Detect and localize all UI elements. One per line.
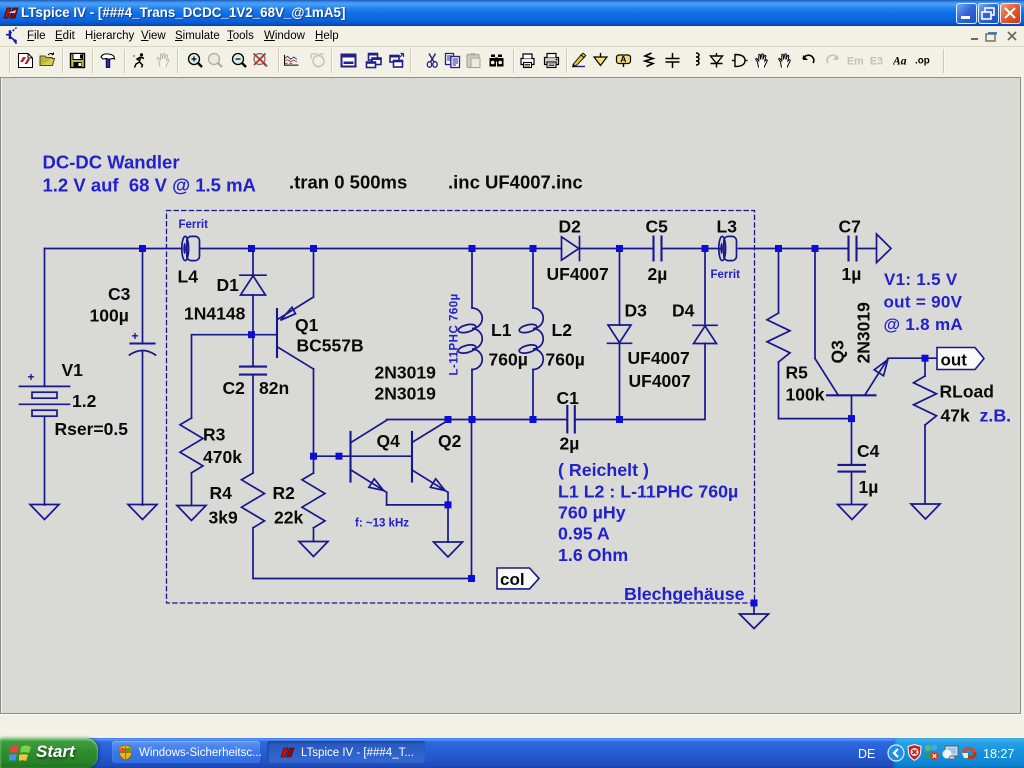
ground Blechgehäuse bbox=[740, 614, 769, 629]
svg-text:+: + bbox=[28, 370, 35, 384]
svg-text:out = 90V: out = 90V bbox=[884, 293, 963, 312]
wire V1 branch bbox=[44, 249, 46, 506]
junction (142,248) bbox=[139, 245, 146, 252]
svg-text:Q2: Q2 bbox=[438, 431, 462, 451]
svg-text:L3: L3 bbox=[717, 217, 738, 237]
wire C2 to R4 bbox=[252, 375, 254, 473]
wire C3 branch bbox=[142, 249, 144, 506]
wire C2 top bbox=[252, 335, 254, 366]
svg-text:1µ: 1µ bbox=[859, 477, 879, 497]
junction (851.5,418.6) bbox=[848, 415, 855, 422]
comment DC-DC Wandler headline bbox=[43, 152, 256, 196]
svg-text:UF4007: UF4007 bbox=[628, 348, 690, 368]
svg-text:Q1: Q1 bbox=[295, 315, 319, 335]
transistor Q1 PNP bbox=[277, 249, 314, 370]
svg-text:D3: D3 bbox=[625, 301, 648, 321]
junction (313,248) bbox=[310, 245, 317, 252]
svg-text:D1: D1 bbox=[217, 275, 240, 295]
resistor R2 bbox=[302, 473, 325, 528]
svg-text:Ferrit: Ferrit bbox=[179, 219, 209, 231]
svg-text:f: ~13 kHz: f: ~13 kHz bbox=[355, 518, 409, 530]
junction (925,358.2) bbox=[922, 355, 929, 362]
wire base row Q4 Q2 bbox=[314, 455, 412, 457]
svg-text:col: col bbox=[500, 570, 525, 589]
svg-text:2µ: 2µ bbox=[648, 264, 668, 284]
svg-text:L4: L4 bbox=[178, 267, 199, 287]
svg-text:1.2 V auf 68 V @ 1.5 mA: 1.2 V auf 68 V @ 1.5 mA bbox=[43, 175, 256, 196]
svg-text:100µ: 100µ bbox=[90, 306, 129, 326]
capacitor C5 bbox=[654, 237, 662, 261]
inductor L1 bbox=[457, 249, 482, 420]
wire col drop bbox=[471, 420, 473, 579]
svg-text:V1: V1 bbox=[62, 360, 84, 380]
ground C4 bbox=[838, 505, 867, 520]
junction (448,419.5) bbox=[445, 416, 452, 423]
svg-text:Ferrit: Ferrit bbox=[711, 269, 741, 281]
resistor R5 bbox=[767, 313, 790, 362]
junction (778,248) bbox=[775, 245, 782, 252]
svg-text:L1: L1 bbox=[491, 320, 512, 340]
svg-text:1.2: 1.2 bbox=[72, 391, 97, 411]
wire Q1 base bbox=[253, 334, 277, 336]
wire Q1 collector down bbox=[313, 369, 315, 456]
svg-text:2µ: 2µ bbox=[560, 434, 580, 454]
wire R3 bottom bbox=[191, 473, 193, 506]
capacitor C7 bbox=[849, 237, 857, 261]
svg-text:UF4007: UF4007 bbox=[547, 264, 609, 284]
svg-text:C7: C7 bbox=[839, 217, 861, 237]
junction (339,456) bbox=[336, 453, 343, 460]
svg-text:Q3: Q3 bbox=[828, 340, 848, 364]
output arrow marker bbox=[877, 234, 892, 263]
junction (471.5,578.5) bbox=[468, 575, 475, 582]
wire R2 top/bottom bbox=[313, 456, 315, 541]
svg-text:L-11PHC 760µ: L-11PHC 760µ bbox=[449, 293, 461, 375]
diode D1 bbox=[240, 275, 266, 295]
svg-text:BC557B: BC557B bbox=[297, 336, 364, 356]
diode D3 bbox=[608, 325, 632, 343]
wire top rail left bbox=[45, 248, 183, 250]
svg-text:2N3019: 2N3019 bbox=[375, 363, 437, 383]
svg-text:Blechgehäuse: Blechgehäuse bbox=[624, 584, 745, 604]
svg-text:A: A bbox=[620, 54, 626, 64]
Blechgehaeuse dashed shield box bbox=[167, 211, 755, 604]
junction (533,248) bbox=[530, 245, 537, 252]
svg-text:82n: 82n bbox=[259, 378, 289, 398]
svg-text:100k: 100k bbox=[786, 385, 825, 405]
svg-text:Q4: Q4 bbox=[377, 431, 401, 451]
wire R5 branch bbox=[779, 249, 852, 419]
junction (251.5,334.7) bbox=[248, 331, 255, 338]
wire C1 right to D4 bbox=[575, 344, 705, 420]
comment V1: 1.5 V bbox=[884, 270, 963, 334]
ground V1 bbox=[30, 505, 59, 520]
svg-text:D2: D2 bbox=[559, 217, 582, 237]
taskbar bbox=[0, 738, 1024, 768]
svg-text:2N3019: 2N3019 bbox=[375, 384, 437, 404]
svg-text:.inc UF4007.inc: .inc UF4007.inc bbox=[448, 172, 583, 193]
svg-text:DC-DC Wandler: DC-DC Wandler bbox=[43, 152, 180, 173]
svg-text:+: + bbox=[132, 329, 139, 343]
junction (815,248) bbox=[812, 245, 819, 252]
wire collector rail bbox=[387, 419, 567, 421]
svg-text:out: out bbox=[941, 351, 968, 370]
svg-text:@ 1.8 mA: @ 1.8 mA bbox=[884, 315, 963, 334]
battery V1 bbox=[20, 386, 70, 416]
wire R3 top bbox=[192, 335, 252, 418]
transistor Q3 NPN rotated bbox=[815, 358, 925, 418]
svg-text:760µ: 760µ bbox=[546, 350, 585, 370]
wire top rail D2-C5 bbox=[580, 248, 654, 250]
svg-text:.tran 0 500ms: .tran 0 500ms bbox=[289, 172, 407, 193]
svg-text:UF4007: UF4007 bbox=[629, 371, 691, 391]
ground Q2 Q4 bbox=[434, 542, 463, 557]
svg-text:V1: 1.5 V: V1: 1.5 V bbox=[884, 270, 958, 289]
svg-text:22k: 22k bbox=[274, 508, 303, 528]
inductor L2 bbox=[518, 249, 543, 420]
capacitor C3 polarized bbox=[130, 344, 156, 356]
resistor RLoad bbox=[914, 376, 937, 425]
svg-text:760 µHy: 760 µHy bbox=[558, 503, 626, 523]
wire D3 branch bbox=[619, 249, 621, 420]
wire top rail mid bbox=[200, 248, 562, 250]
resistor R3 bbox=[180, 418, 203, 473]
wire D4 branch bbox=[704, 249, 706, 326]
svg-text:Aa: Aa bbox=[893, 55, 907, 68]
wire top rail L3-C7 bbox=[739, 248, 849, 250]
transistor Q4 NPN bbox=[351, 420, 387, 505]
svg-text:2N3019: 2N3019 bbox=[854, 302, 874, 364]
ferrite bead L4 bbox=[182, 236, 200, 260]
svg-text:C5: C5 bbox=[646, 217, 669, 237]
wire R4 bottom to col rail bbox=[253, 528, 472, 579]
port flag col bbox=[497, 568, 539, 589]
svg-text:1N4148: 1N4148 bbox=[184, 304, 246, 324]
diode D2 bbox=[562, 237, 580, 261]
junction (472,248) bbox=[469, 245, 476, 252]
capacitor C4 bbox=[839, 465, 866, 472]
svg-text:Rser=0.5: Rser=0.5 bbox=[55, 419, 129, 439]
junction (313.5,456) bbox=[310, 453, 317, 460]
wire D1 branch bbox=[252, 249, 254, 335]
resistor R4 bbox=[242, 473, 265, 528]
wire out node bbox=[925, 358, 937, 376]
svg-text:E3: E3 bbox=[870, 56, 883, 68]
svg-text:L1 L2 : L-11PHC 760µ: L1 L2 : L-11PHC 760µ bbox=[558, 482, 738, 502]
junction (472,419.5) bbox=[469, 416, 476, 423]
port flag out bbox=[937, 348, 984, 370]
wire emitters to ground bbox=[387, 505, 448, 542]
diode D4 bbox=[693, 325, 717, 343]
svg-text:C2: C2 bbox=[223, 378, 246, 398]
svg-text:z.B.: z.B. bbox=[980, 406, 1012, 426]
junction (448,505) bbox=[445, 501, 452, 508]
svg-text:470k: 470k bbox=[203, 447, 242, 467]
comment Reichelt block bbox=[558, 460, 738, 565]
ground R2 bbox=[299, 542, 328, 557]
svg-text:.op: .op bbox=[915, 56, 930, 67]
capacitor C1 bbox=[567, 406, 575, 433]
wire Q3 collector bbox=[814, 249, 816, 359]
wire RLoad bottom bbox=[924, 425, 926, 504]
svg-text:0.95 A: 0.95 A bbox=[558, 524, 610, 544]
junction (620,248) bbox=[616, 245, 623, 252]
wire C4 branch bbox=[851, 419, 853, 505]
svg-text:1.6 Ohm: 1.6 Ohm bbox=[558, 545, 628, 565]
wire top rail C5-L3 bbox=[662, 248, 721, 250]
svg-text:47k: 47k bbox=[941, 406, 970, 426]
ground RLoad bbox=[911, 504, 940, 519]
junction (251.5,248) bbox=[248, 245, 255, 252]
svg-text:C1: C1 bbox=[557, 388, 580, 408]
svg-text:3k9: 3k9 bbox=[209, 508, 238, 528]
capacitor C2 bbox=[240, 367, 266, 375]
svg-text:C4: C4 bbox=[857, 441, 880, 461]
svg-text:RLoad: RLoad bbox=[940, 382, 994, 402]
svg-text:R2: R2 bbox=[273, 483, 296, 503]
ground C3 bbox=[128, 505, 157, 520]
ground R3 bbox=[177, 506, 206, 521]
svg-text:R5: R5 bbox=[786, 363, 809, 383]
junction (619.5,419.5) bbox=[616, 416, 623, 423]
ferrite bead L3 bbox=[719, 236, 737, 260]
svg-text:Em: Em bbox=[847, 56, 863, 68]
junction (533,419.5) bbox=[530, 416, 537, 423]
wire top rail C7-out bbox=[857, 248, 877, 250]
svg-text:C3: C3 bbox=[108, 284, 131, 304]
svg-text:R4: R4 bbox=[210, 483, 233, 503]
svg-text:D4: D4 bbox=[672, 301, 695, 321]
junction (705,248) bbox=[702, 245, 709, 252]
svg-text:R3: R3 bbox=[203, 425, 226, 445]
svg-text:L2: L2 bbox=[552, 320, 573, 340]
svg-text:1µ: 1µ bbox=[842, 264, 862, 284]
junction (754,603) bbox=[751, 600, 758, 607]
transistor Q2 NPN bbox=[412, 420, 448, 505]
svg-text:( Reichelt ): ( Reichelt ) bbox=[558, 460, 649, 480]
wire Blechgehäuse ground stub bbox=[753, 603, 755, 614]
